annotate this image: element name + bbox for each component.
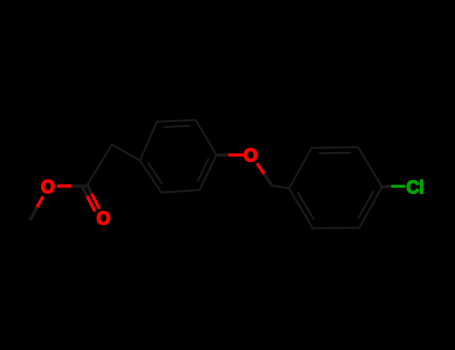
bond ring1-O3 — [217, 153, 244, 156]
bond CH2b-ring2 — [272, 186, 289, 189]
bond CH2a-ring1 — [112, 145, 140, 161]
bond O3-CH2b — [258, 165, 272, 186]
bond CH3-O1 (methyl to ester oxygen) — [31, 198, 43, 220]
svg-text:O: O — [96, 208, 110, 228]
benzene ring 2 — [289, 147, 382, 228]
svg-text:O: O — [41, 177, 55, 197]
bond C-CH2a — [87, 145, 113, 187]
bond O1-C (ester O to carbonyl carbon) — [59, 184, 87, 187]
svg-text:O: O — [244, 146, 258, 166]
benzene ring 1 — [140, 120, 217, 193]
double bond C=O2 (carbonyl) — [83, 185, 99, 210]
bond ring2-Cl — [382, 185, 404, 189]
svg-text:Cl: Cl — [406, 177, 424, 197]
